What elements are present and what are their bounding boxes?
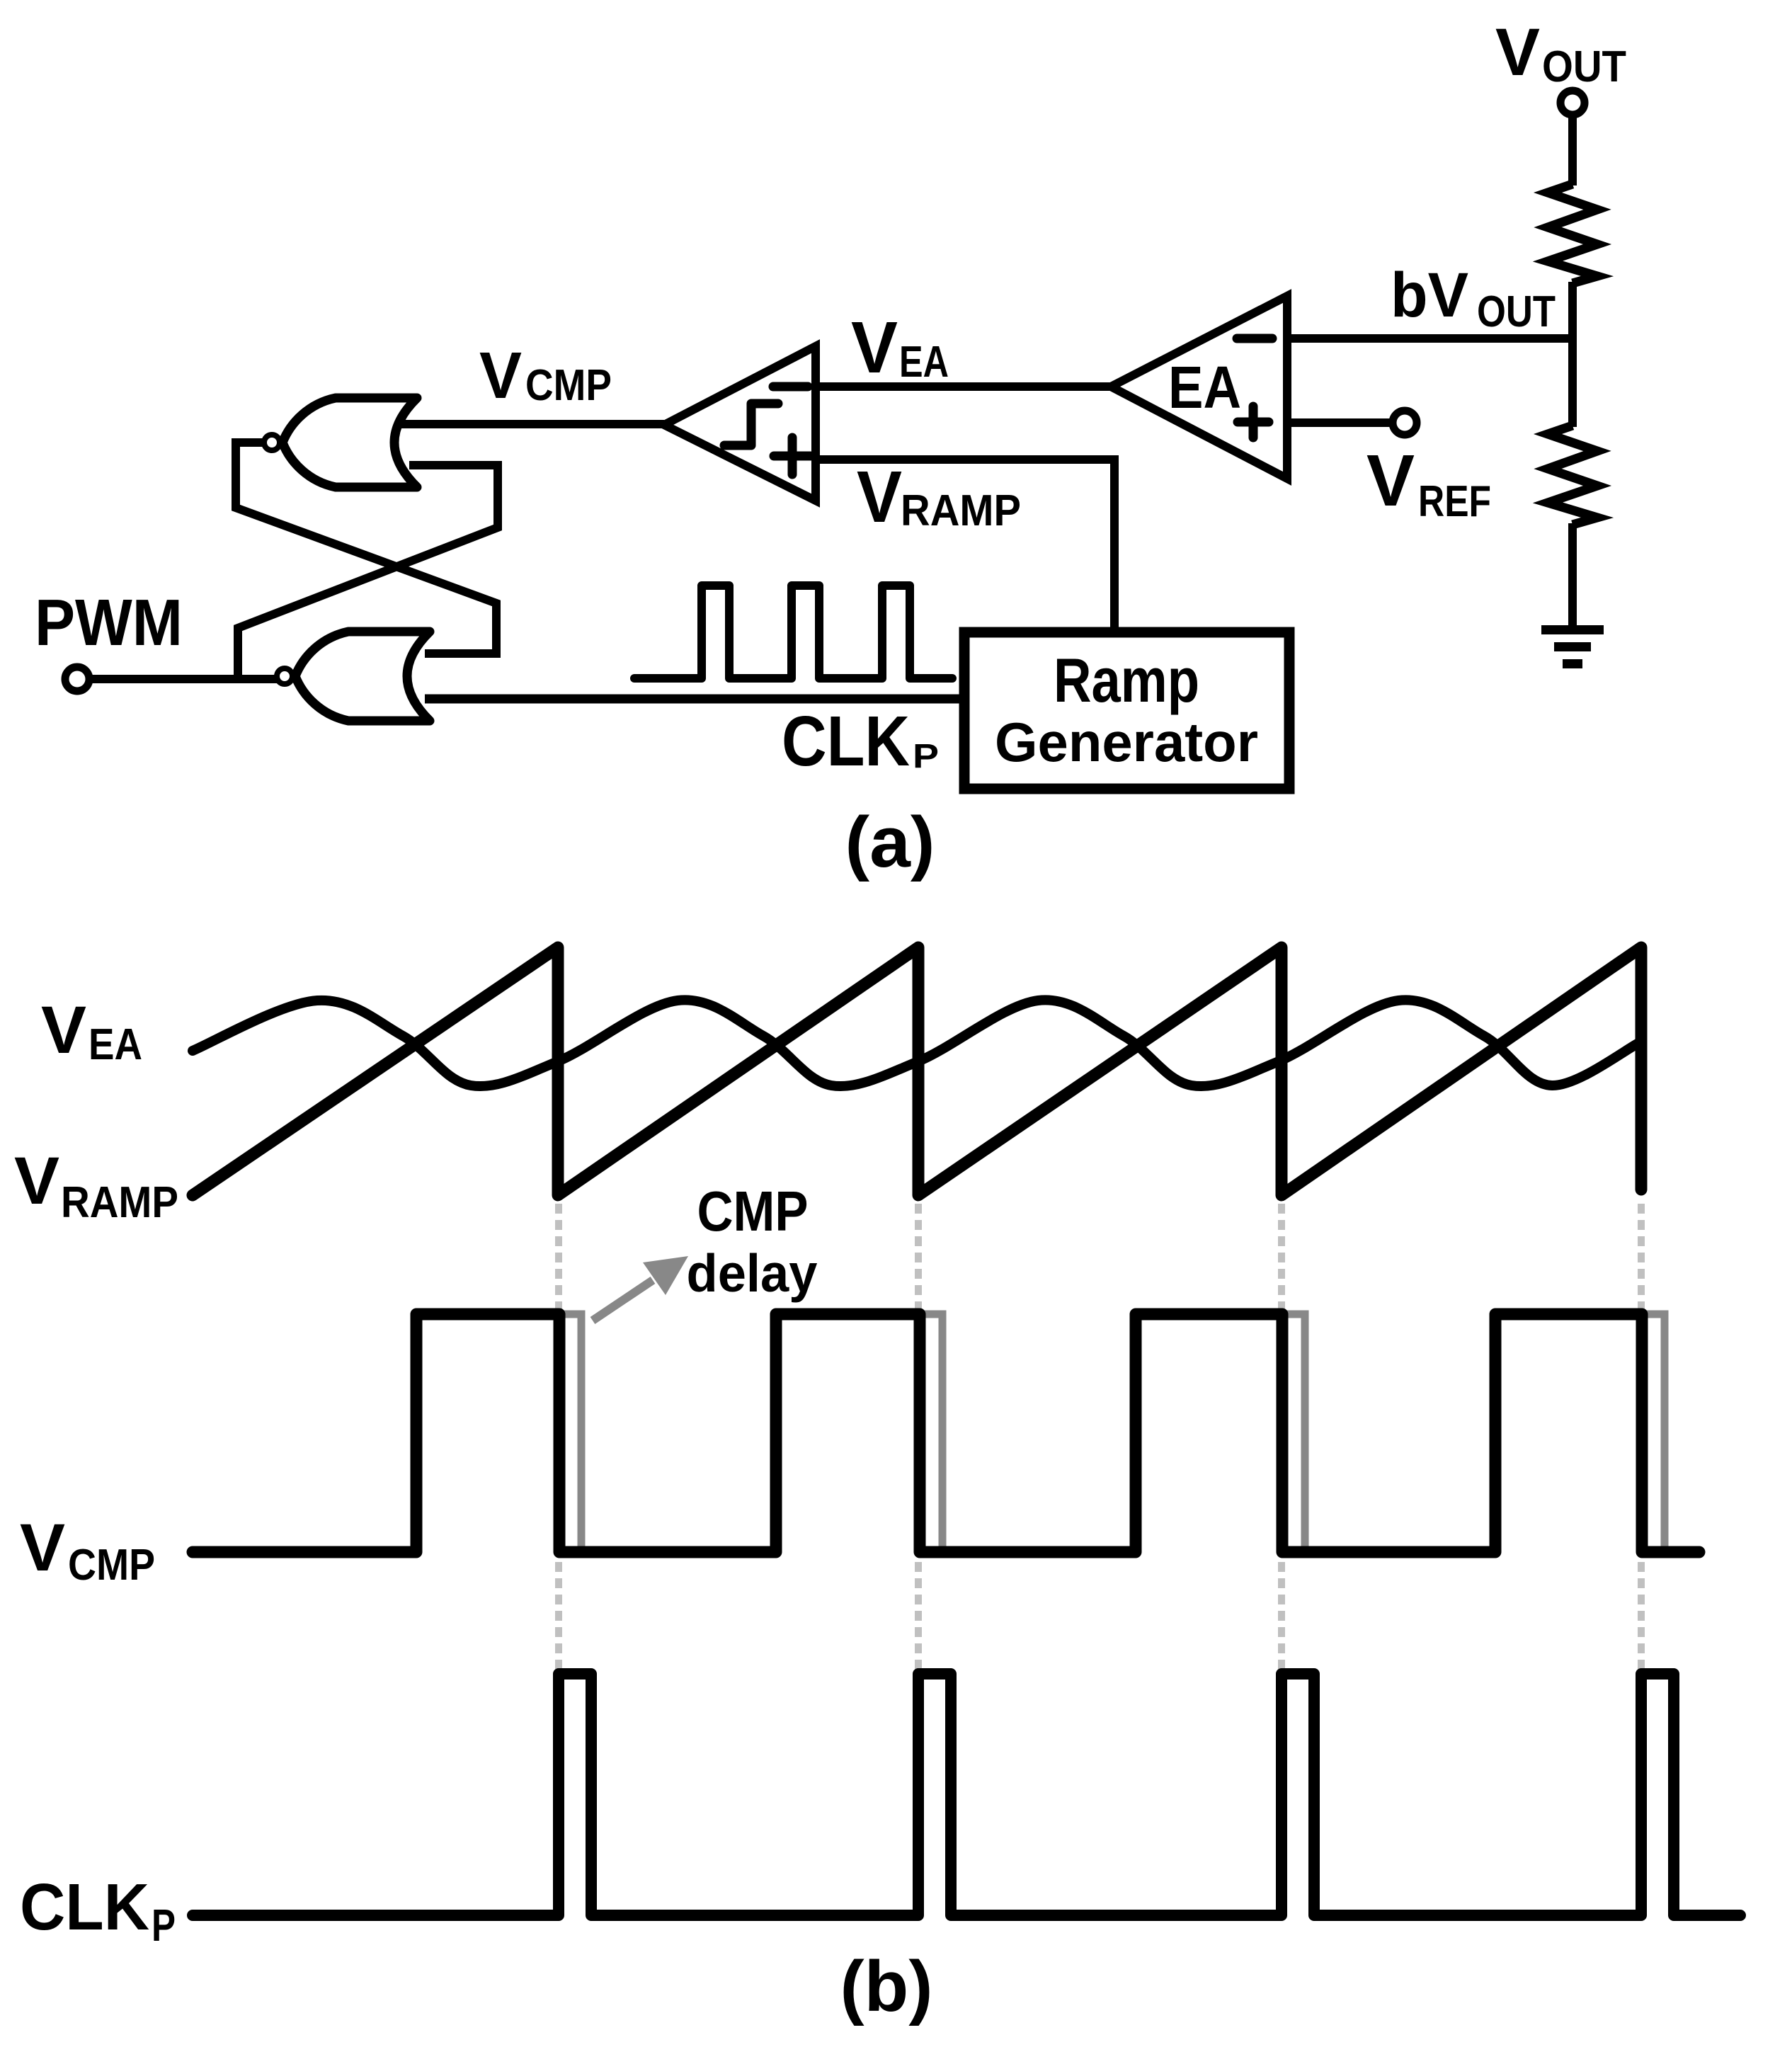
resistor R2 — [1548, 426, 1597, 525]
comparator CMP (with hysteresis) — [664, 346, 816, 501]
label VOUT — [1495, 15, 1626, 91]
svg-text:V: V — [20, 1510, 65, 1585]
SECTION B: waveforms — [14, 947, 1740, 2026]
waveform VCMP delayed gray trace 4 — [1643, 1314, 1665, 1549]
label bVOUT — [1391, 259, 1556, 336]
wire EA output to comparator inverting input (net VEA) — [816, 382, 1111, 391]
svg-text:delay: delay — [687, 1243, 818, 1303]
clock pulse train symbol — [634, 586, 952, 678]
svg-text:EA: EA — [899, 338, 949, 387]
waveform VCMP delayed gray trace 2 — [920, 1314, 942, 1549]
label VRAMP — [857, 456, 1021, 537]
svg-text:CMP: CMP — [525, 361, 612, 410]
svg-text:CLK: CLK — [782, 702, 910, 781]
waveform VEA ripple curve — [193, 1000, 1641, 1086]
op-amp EA (error amplifier) — [1111, 296, 1287, 479]
svg-text:V: V — [41, 993, 86, 1068]
label CMP delay — [687, 1180, 818, 1303]
svg-text:OUT: OUT — [1542, 42, 1626, 91]
label (b) — [840, 1947, 933, 2026]
dashed guide line at period 3 — [1278, 1204, 1285, 1670]
ramp generator block — [964, 632, 1289, 789]
terminal PWM — [65, 667, 89, 691]
label VCMP waveform — [20, 1510, 155, 1590]
svg-text:PWM: PWM — [35, 586, 183, 659]
terminal VREF — [1393, 411, 1417, 435]
svg-text:EA: EA — [89, 1020, 142, 1069]
svg-text:EA: EA — [1168, 354, 1241, 421]
wire CLKP : G2 lower input to ramp generator — [425, 695, 966, 704]
svg-text:V: V — [1495, 15, 1540, 90]
svg-text:P: P — [913, 738, 939, 775]
waveform VRAMP sawtooth — [193, 947, 1641, 1195]
svg-text:REF: REF — [1418, 477, 1491, 526]
svg-text:(a): (a) — [845, 803, 935, 882]
svg-text:(b): (b) — [840, 1947, 933, 2026]
label (a) — [845, 803, 935, 882]
label VRAMP waveform — [14, 1144, 178, 1227]
svg-text:Ramp: Ramp — [1054, 645, 1199, 715]
waveform VCMP delayed gray trace 3 — [1283, 1314, 1305, 1549]
svg-text:RAMP: RAMP — [61, 1178, 178, 1227]
wire comparator output to latch gate G1 input (net VCMP) — [391, 420, 664, 428]
dashed guide line at period 1 — [555, 1204, 562, 1670]
svg-text:Generator: Generator — [995, 711, 1258, 773]
label PWM — [35, 586, 183, 659]
CMP delay annotation arrow — [593, 1256, 688, 1321]
wire VOUT terminal to resistor R1 — [1568, 103, 1577, 186]
label CLKP waveform — [20, 1870, 176, 1951]
label VREF — [1366, 440, 1491, 526]
comparator minus pin mark — [773, 382, 808, 392]
terminal VOUT — [1560, 91, 1585, 115]
dashed guide line at period 4 — [1638, 1204, 1645, 1670]
svg-text:V: V — [1366, 440, 1415, 521]
node bVOUT / wire bVOUT to EA inverting input — [1287, 334, 1577, 343]
svg-text:V: V — [479, 338, 522, 412]
EA plus pin mark — [1238, 418, 1269, 427]
label VEA waveform — [41, 993, 142, 1069]
comparator hysteresis symbol — [724, 404, 778, 445]
svg-text:OUT: OUT — [1477, 287, 1556, 336]
wire G2 output cross-coupled to G1 lower input — [238, 465, 498, 680]
NOR gate G1 — [264, 398, 417, 487]
wire VREF terminal to EA non-inverting input — [1287, 418, 1405, 427]
waveform CLKP — [193, 1674, 1740, 1915]
label VEA — [851, 307, 949, 388]
waveform VCMP — [193, 1314, 1699, 1552]
wire R2 to ground — [1568, 523, 1577, 629]
svg-text:CMP: CMP — [697, 1180, 809, 1243]
label CLKP — [782, 702, 939, 781]
svg-text:CLK: CLK — [20, 1870, 149, 1944]
wire PWM terminal to G2 output bubble — [77, 675, 285, 683]
SECTION A: schematic — [35, 15, 1626, 882]
svg-text:CMP: CMP — [68, 1541, 155, 1590]
svg-text:RAMP: RAMP — [901, 486, 1021, 535]
comparator plus pin mark — [774, 452, 811, 461]
EA minus pin mark — [1237, 334, 1272, 343]
dashed guide line at period 2 — [915, 1204, 922, 1670]
ground — [1541, 625, 1604, 668]
label VCMP — [479, 338, 612, 412]
wire comparator non-inverting input to ramp generator (net VRAMP) — [816, 460, 1114, 635]
waveform VCMP delayed gray trace 1 — [561, 1314, 581, 1549]
svg-text:V: V — [14, 1144, 59, 1219]
svg-text:V: V — [851, 307, 898, 388]
wire G1 output cross-coupled to G2 upper input — [236, 443, 496, 654]
resistor R1 — [1548, 184, 1597, 283]
svg-text:bV: bV — [1391, 259, 1468, 330]
wire R1 to node bVOUT to resistor R2 — [1568, 282, 1577, 427]
svg-text:V: V — [857, 456, 902, 537]
svg-text:P: P — [152, 1900, 176, 1951]
NOR gate G2 — [277, 632, 430, 721]
